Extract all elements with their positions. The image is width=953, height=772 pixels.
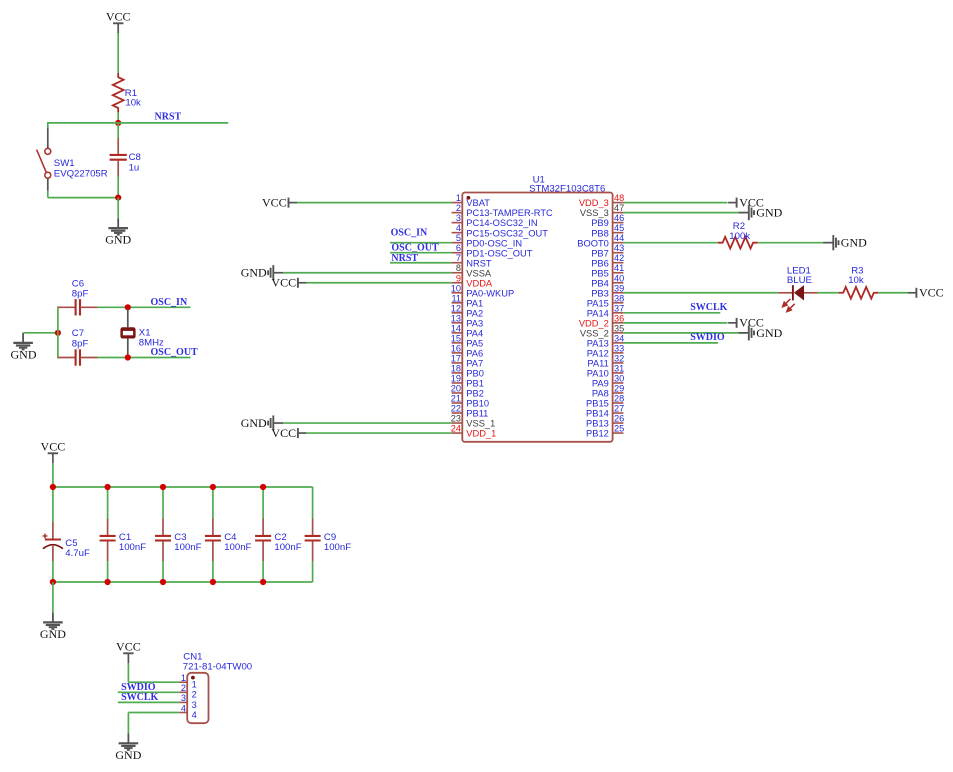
node NRST junction	[115, 120, 121, 126]
svg-text:100nF: 100nF	[224, 542, 251, 553]
U1 pin 41 (PB5)	[591, 263, 624, 278]
svg-text:BOOT0: BOOT0	[577, 238, 609, 248]
capacitor C7	[58, 349, 98, 365]
svg-text:25: 25	[614, 424, 624, 434]
svg-text:1: 1	[181, 673, 186, 683]
connector CN1 body	[187, 673, 208, 723]
svg-text:8pF: 8pF	[72, 288, 89, 299]
svg-text:SWCLK: SWCLK	[690, 302, 727, 313]
svg-text:PA14: PA14	[587, 308, 609, 318]
U1 pin 2 (PC13-TAMPER-RTC)	[452, 203, 553, 218]
svg-text:PA2: PA2	[466, 308, 483, 318]
wire node to switch branch	[48, 122, 118, 128]
svg-text:23: 23	[451, 414, 461, 424]
bottom node junction	[115, 195, 121, 201]
C4 value labels	[224, 532, 251, 553]
U1 pin 28 (PB15)	[586, 394, 624, 409]
svg-text:PA3: PA3	[466, 318, 483, 328]
U1 pin 7 (NRST)	[452, 253, 492, 268]
svg-text:GND: GND	[241, 266, 267, 280]
svg-text:1: 1	[192, 680, 197, 690]
wire SWDIO to CN1 pin 2	[118, 691, 179, 693]
svg-text:PB10: PB10	[466, 399, 489, 409]
capacitor C5 (polarized)	[43, 487, 63, 582]
crystal X1	[120, 309, 135, 357]
wire VCC to top rail	[52, 463, 54, 487]
svg-text:100nF: 100nF	[324, 542, 351, 553]
svg-text:20: 20	[451, 383, 461, 393]
svg-text:44: 44	[614, 233, 624, 243]
svg-text:PB9: PB9	[591, 218, 609, 228]
ground GND (pin 8 VSSA)	[241, 265, 284, 280]
U1 pin 13 (PA3)	[451, 313, 483, 328]
wire pin 47 to GND	[623, 212, 746, 214]
wire switch to bottom node	[48, 191, 118, 198]
ground GND (reset circuit)	[105, 218, 131, 246]
svg-text:42: 42	[614, 253, 624, 263]
svg-text:4: 4	[456, 223, 461, 233]
svg-text:10: 10	[451, 283, 461, 293]
wire bottom rail to ground	[52, 582, 54, 613]
svg-text:39: 39	[614, 283, 624, 293]
svg-text:40: 40	[614, 273, 624, 283]
svg-text:VCC: VCC	[919, 286, 944, 300]
power symbol VCC (pin 24 VDD_1)	[271, 426, 306, 440]
svg-text:GND: GND	[11, 347, 37, 361]
CN1 pin 3	[179, 693, 197, 710]
svg-text:VCC: VCC	[271, 276, 296, 290]
svg-text:GND: GND	[756, 326, 782, 340]
U1 pin 1 (VBAT)	[452, 193, 491, 208]
svg-text:3: 3	[181, 693, 186, 703]
net label OSC_IN	[151, 297, 188, 308]
U1 pin 45 (PB8)	[591, 223, 624, 238]
wire OSC_OUT to pin 6	[390, 252, 452, 254]
svg-text:43: 43	[614, 243, 624, 253]
svg-text:15: 15	[451, 333, 461, 343]
svg-text:PB2: PB2	[466, 389, 484, 399]
svg-text:PA12: PA12	[587, 349, 609, 359]
U1 pin 38 (PA15)	[587, 293, 624, 308]
power symbol VCC (pin 9 VDDA)	[271, 276, 306, 290]
wire R2 to GND	[758, 242, 831, 244]
wire CN1 pin 4 to ground	[128, 713, 179, 734]
svg-text:PB8: PB8	[591, 228, 609, 238]
svg-text:27: 27	[614, 404, 624, 414]
C7 value labels	[72, 328, 89, 349]
svg-text:21: 21	[451, 394, 461, 404]
ground GND (CN1)	[115, 734, 141, 762]
svg-text:11: 11	[451, 293, 461, 303]
C6 value labels	[72, 278, 89, 299]
U1 pin 3 (PC14-OSC32_IN)	[452, 213, 538, 228]
wire SWCLK to CN1 pin 3	[118, 701, 179, 703]
R3 value labels	[848, 265, 864, 286]
wire VCC to pin 1	[297, 202, 452, 204]
svg-text:6: 6	[456, 243, 461, 253]
U1 pin 16 (PA6)	[451, 343, 483, 358]
svg-text:PB7: PB7	[591, 248, 609, 258]
svg-text:NRST: NRST	[466, 258, 492, 268]
svg-text:SWCLK: SWCLK	[121, 692, 158, 703]
node crystal-gnd junction	[55, 330, 61, 336]
svg-text:PB14: PB14	[586, 409, 609, 419]
U1 pin 9 (VDDA)	[452, 273, 493, 288]
net label SWCLK (CN1)	[121, 692, 158, 703]
U1 pin 36 (VDD_2)	[579, 313, 624, 328]
svg-text:41: 41	[614, 263, 624, 273]
C3 value labels	[174, 532, 201, 553]
svg-text:35: 35	[614, 323, 624, 333]
junction bottom rail	[50, 579, 56, 585]
junction bottom rail	[160, 579, 166, 585]
capacitor C3	[155, 487, 171, 582]
svg-text:26: 26	[614, 414, 624, 424]
wire GND to pin 8	[283, 272, 451, 274]
power symbol VCC (CN1)	[116, 639, 141, 663]
U1 pin 33 (PA12)	[587, 343, 624, 358]
svg-text:18: 18	[451, 363, 461, 373]
resistor R1	[113, 73, 124, 113]
U1 pin 24 (VDD_1)	[451, 424, 497, 439]
svg-text:PA11: PA11	[587, 359, 608, 369]
wire R1 to NRST node	[117, 112, 119, 123]
resistor R2	[718, 237, 758, 249]
net label OSC_IN (pin 5)	[391, 228, 428, 239]
C8 value labels	[129, 152, 141, 173]
svg-text:X1: X1	[139, 327, 151, 338]
svg-text:100nF: 100nF	[174, 542, 201, 553]
junction top rail	[260, 484, 266, 490]
svg-text:VCC: VCC	[262, 196, 287, 210]
svg-text:GND: GND	[115, 748, 141, 762]
U1 pin 44 (BOOT0)	[577, 233, 624, 248]
svg-text:PB1: PB1	[466, 379, 484, 389]
svg-text:VCC: VCC	[41, 439, 66, 453]
svg-text:SWDIO: SWDIO	[690, 332, 725, 343]
junction bottom rail	[260, 579, 266, 585]
svg-text:3: 3	[456, 213, 461, 223]
svg-text:EVQ22705R: EVQ22705R	[54, 169, 108, 180]
svg-text:PA13: PA13	[587, 338, 609, 348]
R2 value labels	[729, 221, 750, 242]
wire pin 35 to GND	[623, 332, 746, 334]
svg-text:45: 45	[614, 223, 624, 233]
svg-text:16: 16	[451, 343, 461, 353]
net label SWDIO (CN1)	[121, 682, 156, 693]
wire OSC_OUT	[98, 357, 191, 359]
U1 pin 39 (PB3)	[591, 283, 624, 298]
power symbol VCC (pin 48 VDD_3)	[728, 196, 764, 210]
capacitor C1	[100, 487, 116, 582]
svg-text:VDDA: VDDA	[466, 278, 493, 288]
U1 pin 48 (VDD_3)	[579, 193, 624, 208]
svg-text:48: 48	[614, 193, 624, 203]
svg-text:VBAT: VBAT	[466, 198, 490, 208]
svg-text:100nF: 100nF	[119, 542, 146, 553]
U1 pin 21 (PB10)	[451, 394, 489, 409]
svg-text:8: 8	[456, 263, 461, 273]
C9 value labels	[324, 532, 351, 553]
capacitor C8	[110, 123, 127, 198]
C1 value labels	[119, 532, 146, 553]
svg-text:PD1-OSC_OUT: PD1-OSC_OUT	[466, 248, 532, 258]
svg-text:37: 37	[614, 303, 624, 313]
ground GND (pin 47 VSS_3)	[739, 205, 783, 220]
svg-text:BLUE: BLUE	[787, 275, 812, 286]
svg-text:PB5: PB5	[591, 268, 609, 278]
power symbol VCC (LED supply)	[908, 286, 944, 300]
IC U1 reference labels	[529, 174, 605, 194]
svg-text:100k: 100k	[729, 231, 750, 242]
svg-text:19: 19	[451, 373, 461, 383]
capacitor C2	[255, 487, 271, 582]
power symbol VCC (decoupling bank)	[41, 439, 66, 463]
svg-text:PB12: PB12	[586, 429, 609, 439]
wire pin 36 to VCC	[623, 322, 727, 324]
svg-text:VSS_2: VSS_2	[580, 328, 609, 338]
U1 pin 15 (PA5)	[451, 333, 483, 348]
wire NRST	[118, 122, 228, 124]
svg-text:PA7: PA7	[466, 359, 483, 369]
junction bottom rail	[105, 579, 111, 585]
svg-text:7: 7	[456, 253, 461, 263]
power symbol VCC (pin 36 VDD_2)	[728, 316, 764, 330]
svg-text:PB3: PB3	[591, 288, 609, 298]
svg-text:PB13: PB13	[586, 419, 609, 429]
svg-text:PA9: PA9	[592, 379, 609, 389]
svg-text:33: 33	[614, 343, 624, 353]
U1 pin 40 (PB4)	[591, 273, 624, 288]
net label SWDIO	[690, 332, 725, 343]
U1 pin 18 (PB0)	[451, 363, 484, 378]
SW1 labels	[54, 158, 108, 179]
svg-text:8pF: 8pF	[72, 338, 89, 349]
CN1 pin-1 dot	[191, 676, 195, 680]
wire ground to crystal node	[23, 332, 58, 334]
X1 value labels	[139, 327, 164, 348]
svg-text:PA4: PA4	[466, 328, 483, 338]
wire NRST to pin 7	[390, 262, 452, 264]
wire pin 39 to LED1	[623, 292, 778, 294]
ground GND (decoupling bank)	[40, 613, 66, 641]
resistor R3	[839, 287, 879, 299]
net label NRST	[155, 112, 182, 123]
svg-text:PA0-WKUP: PA0-WKUP	[466, 288, 514, 298]
C5 value labels	[65, 538, 90, 559]
U1 pin-1 dot	[467, 196, 471, 200]
wire pin 48 to VCC	[623, 202, 727, 204]
svg-text:GND: GND	[841, 236, 867, 250]
junction bottom rail	[210, 579, 216, 585]
svg-text:PC14-OSC32_IN: PC14-OSC32_IN	[466, 218, 537, 228]
svg-text:4: 4	[181, 703, 186, 713]
U1 pin 43 (PB7)	[591, 243, 624, 258]
svg-text:GND: GND	[241, 416, 267, 430]
svg-text:5: 5	[456, 233, 461, 243]
svg-text:PA8: PA8	[592, 389, 609, 399]
junction top rail	[50, 484, 56, 490]
svg-text:PA10: PA10	[587, 369, 609, 379]
svg-text:VDD_1: VDD_1	[466, 429, 496, 439]
C2 value labels	[274, 532, 301, 553]
svg-text:PB15: PB15	[586, 399, 609, 409]
U1 pin 29 (PA8)	[592, 383, 624, 398]
svg-text:29: 29	[614, 383, 624, 393]
svg-text:OSC_IN: OSC_IN	[151, 297, 188, 308]
U1 pin 37 (PA14)	[587, 303, 624, 318]
junction top rail	[105, 484, 111, 490]
svg-text:32: 32	[614, 353, 624, 363]
svg-text:PB11: PB11	[466, 409, 488, 419]
power symbol VCC (pin 1 VBAT)	[262, 196, 297, 210]
U1 pin 6 (PD1-OSC_OUT)	[452, 243, 533, 258]
capacitor C9	[305, 487, 321, 582]
U1 pin 47 (VSS_3)	[580, 203, 624, 218]
net label SWCLK	[690, 302, 727, 313]
svg-text:PC15-OSC32_OUT: PC15-OSC32_OUT	[466, 228, 548, 238]
svg-text:2: 2	[456, 203, 461, 213]
svg-text:VDD_3: VDD_3	[579, 198, 609, 208]
R1 value labels	[125, 88, 141, 109]
LED LED1	[778, 285, 817, 312]
svg-text:10k: 10k	[125, 98, 141, 109]
wire bottom rail	[53, 581, 313, 583]
junction top rail	[160, 484, 166, 490]
wire VCC to pin 24	[306, 432, 451, 434]
svg-text:2: 2	[181, 683, 186, 693]
svg-text:VCC: VCC	[116, 639, 141, 653]
svg-text:3: 3	[192, 700, 197, 710]
wire left vertical (C6/C7 common)	[57, 306, 59, 358]
svg-text:PD0-OSC_IN: PD0-OSC_IN	[466, 238, 522, 248]
svg-text:GND: GND	[756, 206, 782, 220]
power symbol VCC (top of R1)	[106, 9, 131, 33]
U1 pin 26 (PB13)	[586, 414, 624, 429]
net label OSC_OUT (pin 6)	[391, 243, 439, 254]
net label OSC_OUT	[151, 347, 199, 358]
ground GND (crystal)	[11, 333, 37, 362]
svg-text:VSS_1: VSS_1	[466, 419, 495, 429]
wire pin 44 to R2	[623, 242, 718, 244]
wire node to ground	[117, 198, 119, 219]
svg-text:VCC: VCC	[271, 426, 296, 440]
wire VCC to pin 9	[306, 282, 451, 284]
svg-text:VSS_3: VSS_3	[580, 208, 609, 218]
svg-text:PA5: PA5	[466, 338, 483, 348]
CN1 pin 4	[179, 703, 197, 720]
svg-text:PC13-TAMPER-RTC: PC13-TAMPER-RTC	[466, 208, 553, 218]
svg-text:PB6: PB6	[591, 258, 609, 268]
U1 pin 30 (PA9)	[592, 373, 624, 388]
LED1 value labels	[787, 265, 812, 286]
U1 pin 22 (PB11)	[451, 404, 489, 419]
net label NRST (pin 7)	[391, 253, 418, 264]
svg-text:VCC: VCC	[106, 9, 131, 23]
U1 pin 27 (PB14)	[586, 404, 624, 419]
U1 pin 10 (PA0-WKUP)	[451, 283, 514, 298]
CN1 pin 2	[179, 683, 197, 700]
svg-text:GND: GND	[40, 627, 66, 641]
svg-text:100nF: 100nF	[274, 542, 301, 553]
U1 pin 12 (PA2)	[451, 303, 483, 318]
U1 pin 31 (PA10)	[587, 363, 624, 378]
svg-text:10k: 10k	[848, 275, 864, 286]
svg-text:1: 1	[456, 193, 461, 203]
wire pin 34 SWDIO	[623, 342, 718, 344]
svg-text:24: 24	[451, 424, 461, 434]
U1 pin 25 (PB12)	[586, 424, 624, 439]
svg-text:OSC_OUT: OSC_OUT	[151, 347, 199, 358]
connector CN1 labels	[183, 652, 252, 673]
svg-text:9: 9	[456, 273, 461, 283]
svg-text:VSSA: VSSA	[466, 268, 492, 278]
CN1 pin 1	[179, 673, 197, 690]
wire R3 to VCC	[878, 292, 908, 294]
U1 pin 11 (PA1)	[451, 293, 483, 308]
svg-text:PB4: PB4	[591, 278, 609, 288]
svg-text:PA1: PA1	[466, 298, 483, 308]
U1 pin 14 (PA4)	[451, 323, 483, 338]
node OSC_OUT junction	[125, 354, 131, 360]
svg-text:GND: GND	[105, 233, 131, 247]
junction top rail	[210, 484, 216, 490]
svg-text:36: 36	[614, 313, 624, 323]
svg-text:PB0: PB0	[466, 369, 484, 379]
U1 pin 5 (PD0-OSC_IN)	[452, 233, 522, 248]
svg-text:PA15: PA15	[587, 298, 609, 308]
svg-text:721-81-04TW00: 721-81-04TW00	[183, 661, 252, 672]
U1 pin 8 (VSSA)	[452, 263, 492, 278]
U1 pin 23 (VSS_1)	[451, 414, 495, 429]
svg-text:34: 34	[614, 333, 624, 343]
svg-text:PA6: PA6	[466, 349, 483, 359]
svg-text:28: 28	[614, 394, 624, 404]
svg-text:4.7uF: 4.7uF	[65, 548, 90, 559]
svg-text:SW1: SW1	[54, 158, 75, 169]
U1 pin 17 (PA7)	[451, 353, 483, 368]
wire pin 37 SWCLK	[623, 312, 720, 314]
svg-text:47: 47	[614, 203, 624, 213]
wire VCC to CN1 pin 1	[128, 663, 179, 682]
U1 pin 42 (PB6)	[591, 253, 624, 268]
svg-text:2: 2	[192, 690, 197, 700]
ground GND (pin 23 VSS_1)	[241, 415, 284, 430]
svg-text:NRST: NRST	[155, 112, 182, 123]
svg-text:1u: 1u	[129, 162, 140, 173]
wire OSC_IN to pin 5	[390, 242, 452, 244]
U1 pin 46 (PB9)	[591, 213, 624, 228]
wire GND to pin 23	[283, 422, 451, 424]
U1 pin 4 (PC15-OSC32_OUT)	[452, 223, 549, 238]
svg-text:31: 31	[614, 363, 624, 373]
wire VCC to R1	[117, 33, 119, 73]
svg-text:17: 17	[451, 353, 461, 363]
svg-text:30: 30	[614, 373, 624, 383]
U1 pin 20 (PB2)	[451, 383, 484, 398]
svg-text:VDD_2: VDD_2	[579, 318, 609, 328]
U1 pin 32 (PA11)	[587, 353, 624, 368]
capacitor C6	[58, 299, 98, 315]
svg-text:22: 22	[451, 404, 461, 414]
svg-text:4: 4	[192, 710, 197, 720]
IC U1 body	[462, 193, 612, 442]
U1 pin 34 (PA13)	[587, 333, 624, 348]
switch SW1	[37, 128, 51, 191]
wire top rail	[53, 486, 313, 488]
wire LED1 to R3	[818, 292, 839, 294]
U1 pin 19 (PB1)	[451, 373, 484, 388]
